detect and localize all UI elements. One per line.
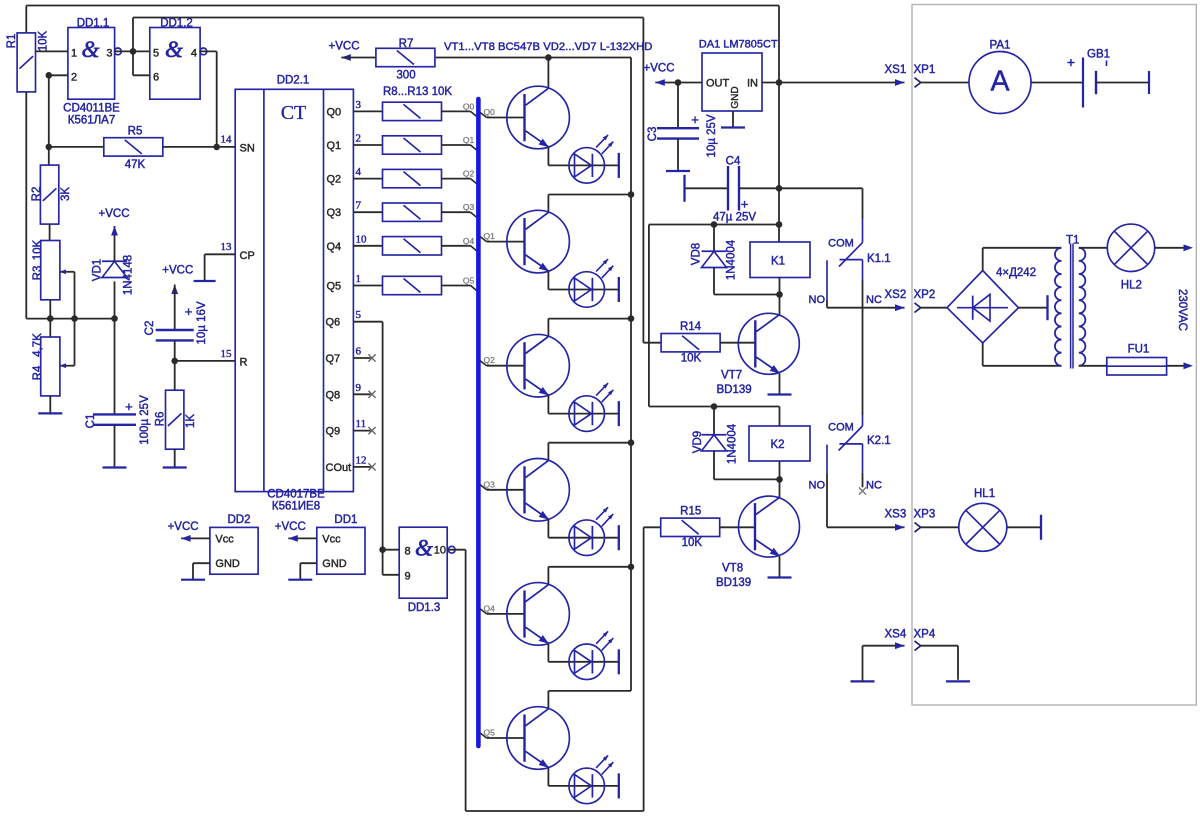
svg-text:VD1: VD1 xyxy=(91,259,103,281)
svg-text:5: 5 xyxy=(153,48,159,60)
svg-text:9: 9 xyxy=(405,571,411,583)
svg-text:Q0: Q0 xyxy=(463,101,475,111)
svg-text:R8...R13 10K: R8...R13 10K xyxy=(383,86,452,98)
svg-text:47µ 25V: 47µ 25V xyxy=(713,212,756,224)
svg-text:K1.1: K1.1 xyxy=(867,253,891,265)
svg-text:CD4011BE: CD4011BE xyxy=(63,103,120,115)
svg-text:K1: K1 xyxy=(771,256,785,268)
svg-text:3K: 3K xyxy=(60,187,72,201)
svg-text:Vcc: Vcc xyxy=(322,534,341,546)
svg-text:Q4: Q4 xyxy=(327,241,342,253)
svg-text:GND: GND xyxy=(322,558,347,570)
svg-text:Q2: Q2 xyxy=(463,169,475,179)
svg-text:NC: NC xyxy=(866,294,882,306)
svg-text:&: & xyxy=(415,536,433,561)
svg-text:12: 12 xyxy=(356,454,367,466)
svg-text:10: 10 xyxy=(356,233,368,245)
svg-text:10K: 10K xyxy=(37,30,49,51)
svg-text:10K: 10K xyxy=(681,353,702,365)
svg-text:Q9: Q9 xyxy=(326,426,341,438)
svg-text:4×Д242: 4×Д242 xyxy=(996,267,1036,279)
svg-text:R4: R4 xyxy=(32,365,44,380)
svg-text:COut: COut xyxy=(326,462,352,474)
svg-text:DA1 LM7805CT: DA1 LM7805CT xyxy=(699,39,778,51)
svg-text:FU1: FU1 xyxy=(1128,344,1150,356)
svg-text:Q4: Q4 xyxy=(484,603,496,613)
svg-text:Q2: Q2 xyxy=(484,355,496,365)
svg-text:10K: 10K xyxy=(32,239,44,260)
svg-text:5: 5 xyxy=(356,309,362,321)
svg-text:Q5: Q5 xyxy=(463,276,475,286)
svg-text:CP: CP xyxy=(240,250,255,262)
svg-text:+VCC: +VCC xyxy=(168,521,199,533)
svg-text:R3: R3 xyxy=(32,266,44,281)
svg-text:Q1: Q1 xyxy=(327,140,342,152)
svg-text:C2: C2 xyxy=(144,321,156,336)
svg-text:1N4004: 1N4004 xyxy=(725,239,737,280)
svg-text:Q3: Q3 xyxy=(327,207,342,219)
svg-text:DD1: DD1 xyxy=(334,514,357,526)
svg-text:COM: COM xyxy=(828,238,854,250)
svg-text:1K: 1K xyxy=(185,414,197,428)
svg-text:CD4017BE: CD4017BE xyxy=(267,489,325,501)
svg-text:GND: GND xyxy=(215,558,240,570)
svg-text:C1: C1 xyxy=(85,414,97,429)
svg-text:4: 4 xyxy=(191,48,197,60)
svg-text:Q3: Q3 xyxy=(484,479,496,489)
svg-text:К561ЛА7: К561ЛА7 xyxy=(68,115,116,127)
svg-text:&: & xyxy=(82,37,100,62)
svg-text:HL1: HL1 xyxy=(974,488,995,500)
svg-text:R15: R15 xyxy=(680,506,701,518)
svg-text:Q2: Q2 xyxy=(327,174,342,186)
svg-text:+VCC: +VCC xyxy=(162,265,193,277)
svg-text:CT: CT xyxy=(281,102,307,124)
svg-text:VD9: VD9 xyxy=(692,431,704,453)
svg-text:Q8: Q8 xyxy=(326,389,341,401)
svg-text:+: + xyxy=(125,399,133,414)
svg-text:IN: IN xyxy=(747,78,758,90)
svg-text:BD139: BD139 xyxy=(716,577,751,589)
svg-text:230VAC: 230VAC xyxy=(1176,289,1188,331)
svg-text:GND: GND xyxy=(730,86,741,108)
svg-text:C3: C3 xyxy=(647,127,659,142)
svg-text:XS2: XS2 xyxy=(885,289,907,301)
svg-text:Q0: Q0 xyxy=(484,107,496,117)
svg-text:COM: COM xyxy=(828,422,854,434)
svg-text:Q7: Q7 xyxy=(326,353,341,365)
svg-text:XS3: XS3 xyxy=(885,509,907,521)
svg-text:Q3: Q3 xyxy=(463,202,475,212)
svg-text:+: + xyxy=(185,304,193,319)
svg-text:GB1: GB1 xyxy=(1087,49,1110,61)
svg-text:100µ 25V: 100µ 25V xyxy=(139,395,151,445)
svg-text:14: 14 xyxy=(221,134,233,146)
svg-text:XS1: XS1 xyxy=(885,64,907,76)
svg-text:6: 6 xyxy=(153,72,159,84)
svg-text:2: 2 xyxy=(356,133,362,145)
svg-text:+: + xyxy=(741,197,749,212)
svg-text:C4: C4 xyxy=(726,156,741,168)
svg-text:13: 13 xyxy=(221,241,233,253)
svg-text:VD8: VD8 xyxy=(690,243,702,265)
svg-text:1N4148: 1N4148 xyxy=(122,255,134,295)
svg-text:Vcc: Vcc xyxy=(215,534,234,546)
svg-text:K2.1: K2.1 xyxy=(867,435,891,447)
svg-text:Q5: Q5 xyxy=(327,281,342,293)
svg-text:XP2: XP2 xyxy=(914,289,936,301)
svg-text:9: 9 xyxy=(356,382,362,394)
svg-text:R1: R1 xyxy=(6,34,18,49)
svg-text:HL2: HL2 xyxy=(1121,280,1142,292)
svg-text:NC: NC xyxy=(866,480,882,492)
svg-text:+: + xyxy=(691,112,699,127)
svg-text:DD1.2: DD1.2 xyxy=(160,17,193,29)
svg-text:4: 4 xyxy=(356,166,362,178)
svg-text:Q1: Q1 xyxy=(463,135,475,145)
svg-text:XP1: XP1 xyxy=(914,64,936,76)
svg-text:К561ИЕ8: К561ИЕ8 xyxy=(272,501,320,513)
svg-text:1N4004: 1N4004 xyxy=(726,423,738,464)
svg-text:3: 3 xyxy=(106,48,112,60)
svg-text:10K: 10K xyxy=(682,537,703,549)
svg-text:NO: NO xyxy=(809,480,826,492)
svg-text:DD2: DD2 xyxy=(227,514,250,526)
svg-text:Q5: Q5 xyxy=(484,728,496,738)
svg-text:R2: R2 xyxy=(31,187,43,202)
svg-text:10: 10 xyxy=(434,545,446,557)
svg-text:OUT: OUT xyxy=(706,78,730,90)
svg-text:1: 1 xyxy=(71,48,77,60)
svg-text:+: + xyxy=(1067,54,1075,70)
svg-text:Q0: Q0 xyxy=(327,106,342,118)
svg-text:300: 300 xyxy=(396,70,415,82)
svg-text:+VCC: +VCC xyxy=(644,63,675,75)
svg-text:R6: R6 xyxy=(154,412,166,427)
svg-text:10µ 25V: 10µ 25V xyxy=(706,114,718,157)
svg-text:NO: NO xyxy=(809,294,826,306)
svg-text:R7: R7 xyxy=(399,38,414,50)
svg-text:4,7K: 4,7K xyxy=(32,333,44,357)
svg-text:Q6: Q6 xyxy=(326,317,341,329)
svg-text:BD139: BD139 xyxy=(717,384,752,396)
svg-text:10µ 16V: 10µ 16V xyxy=(196,301,208,344)
svg-text:XP4: XP4 xyxy=(914,629,936,641)
svg-text:R5: R5 xyxy=(128,126,143,138)
svg-text:7: 7 xyxy=(356,200,362,212)
svg-text:8: 8 xyxy=(405,546,411,558)
svg-text:DD1.3: DD1.3 xyxy=(408,602,441,614)
svg-text:47K: 47K xyxy=(125,159,146,171)
svg-text:XS4: XS4 xyxy=(885,629,907,641)
svg-text:DD1.1: DD1.1 xyxy=(77,17,110,29)
svg-text:VT8: VT8 xyxy=(722,563,743,575)
svg-text:XP3: XP3 xyxy=(914,509,936,521)
svg-text:PA1: PA1 xyxy=(990,40,1011,52)
svg-text:SN: SN xyxy=(240,143,255,155)
svg-text:Q1: Q1 xyxy=(484,231,496,241)
svg-text:&: & xyxy=(165,37,183,62)
svg-text:DD2.1: DD2.1 xyxy=(277,75,310,87)
svg-text:A: A xyxy=(990,66,1009,98)
svg-text:+VCC: +VCC xyxy=(329,41,360,53)
svg-text:15: 15 xyxy=(221,348,233,360)
svg-text:3: 3 xyxy=(356,99,362,111)
svg-text:T1: T1 xyxy=(1066,235,1079,247)
svg-text:6: 6 xyxy=(356,346,362,358)
svg-text:1: 1 xyxy=(356,273,362,285)
svg-text:VT7: VT7 xyxy=(721,370,742,382)
svg-text:11: 11 xyxy=(356,418,367,430)
svg-text:Q4: Q4 xyxy=(463,236,475,246)
svg-text:+VCC: +VCC xyxy=(275,521,306,533)
svg-text:VT1...VT8 BC547B VD2...VD7 L-: VT1...VT8 BC547B VD2...VD7 L-132XHD xyxy=(444,41,652,53)
svg-text:2: 2 xyxy=(71,72,77,84)
svg-text:R14: R14 xyxy=(680,321,702,333)
svg-text:+VCC: +VCC xyxy=(99,208,130,220)
svg-text:R: R xyxy=(240,357,248,369)
svg-text:K2: K2 xyxy=(770,439,784,451)
